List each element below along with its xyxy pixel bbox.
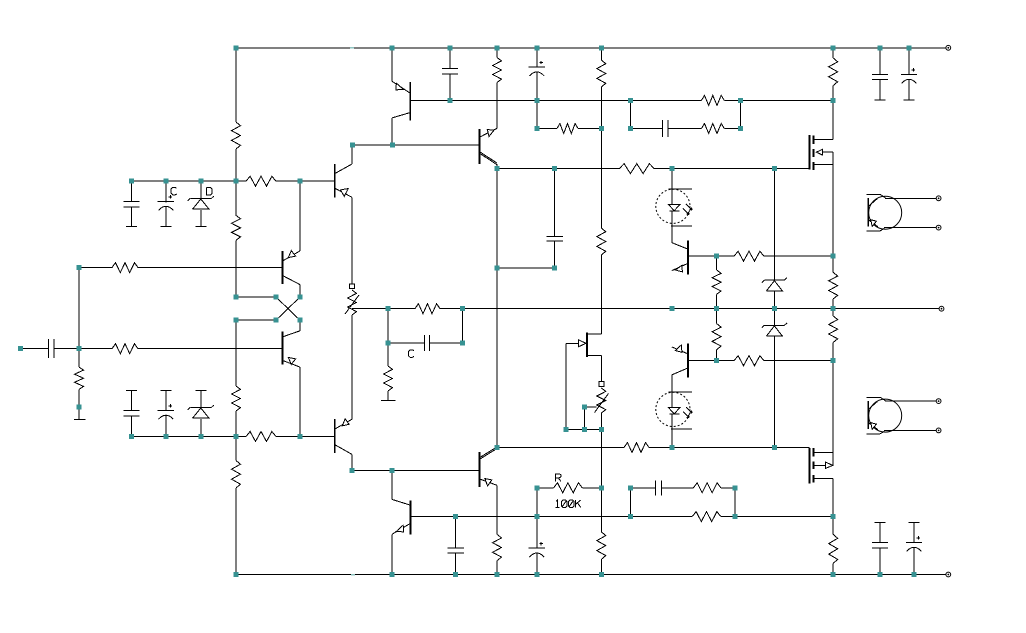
resistor R1 upper bias chain xyxy=(232,122,241,149)
terminal output upper b xyxy=(936,225,941,230)
node junction (165.9,436.5) xyxy=(163,434,168,439)
resistor R11 vas lower load xyxy=(493,534,502,560)
terminal output lower b xyxy=(936,428,941,433)
node junction (300,297) xyxy=(298,295,303,300)
resistor R6 feedback upper xyxy=(112,263,138,273)
node junction (300,436.5) xyxy=(298,434,303,439)
diode D2 rail clamp bottom xyxy=(188,405,214,418)
node junction (450,100.4) xyxy=(448,98,453,103)
transistor Q12 output device upper xyxy=(867,195,937,232)
node junction (630.3,128.5) xyxy=(628,126,633,131)
wire cross-couple bottom xyxy=(236,319,276,321)
node junction (20.6,348.7) xyxy=(18,346,23,351)
capacitor C10 predriver bottom xyxy=(448,548,464,553)
stub C7 xyxy=(126,389,137,391)
node junction (392.5,145.2) xyxy=(390,143,395,148)
capacitor C14 supply bypass top xyxy=(872,74,888,79)
wire x392 segments xyxy=(391,48,393,575)
capacitor C7 rail trio bottom xyxy=(123,410,139,416)
node junction (236,436.5) xyxy=(234,434,239,439)
transistor Q4 vas lower xyxy=(335,315,353,471)
node junction (833.2,256.2) xyxy=(831,254,836,259)
node junction (236,574.5) xyxy=(234,572,239,577)
resistor R28 mosfet drain upper xyxy=(829,58,838,86)
optocoupler LED U2 lower xyxy=(656,375,692,448)
node junction (236,47.8) xyxy=(234,45,239,50)
wire cross diagonal 2 xyxy=(276,297,300,320)
wire y181 line xyxy=(132,180,335,182)
wire x450 cap leads xyxy=(449,48,451,101)
capacitor C3 zobel upper xyxy=(662,120,668,137)
stub C14 xyxy=(875,99,886,101)
terminal V- right xyxy=(946,572,951,577)
resistor R4 lower bias chain xyxy=(232,461,241,489)
node junction (300,181.2) xyxy=(298,179,303,184)
label R xyxy=(555,474,561,482)
wire y360 line xyxy=(688,360,833,362)
resistor R20 zobel upper rung xyxy=(701,124,724,134)
wire pot1 wiper leg xyxy=(352,308,356,310)
node junction (601.3,429.5) xyxy=(599,427,604,432)
zener D3 gate clamp upper xyxy=(762,278,787,291)
ground compensation xyxy=(381,399,396,401)
node junction (833.2,574.5) xyxy=(831,572,836,577)
node junction (909,47.8) xyxy=(907,45,912,50)
wire y436 line xyxy=(132,436,335,438)
node junction (352.3,145.2) xyxy=(350,143,355,148)
node junction (716.6,256.2) xyxy=(714,254,719,259)
stub C15 xyxy=(904,99,915,101)
wire x774 clamp leads xyxy=(773,169,775,448)
resistor R7 input series xyxy=(112,344,138,354)
wire y256 line xyxy=(688,255,833,257)
resistor R27 base lower xyxy=(734,356,764,366)
node junction (833.2,100.4) xyxy=(831,98,836,103)
node junction (554.6,168.6) xyxy=(552,166,557,171)
transistor Q2 input lower xyxy=(283,331,301,367)
ground input xyxy=(74,418,85,420)
capacitor C5 rail trio top xyxy=(123,201,139,206)
transistor Q6 predriver lower xyxy=(392,499,411,534)
node junction (455.7,516.6) xyxy=(453,514,458,519)
node junction (601.3,487.8) xyxy=(599,485,604,490)
label 100K xyxy=(556,500,581,508)
node junction (300,320.2) xyxy=(298,318,303,323)
resistor R30 source lower xyxy=(829,316,838,342)
resistor R9 y436 xyxy=(246,432,276,442)
node junction (566,429.5) xyxy=(564,427,569,432)
node junction (536.8,487.8) xyxy=(534,485,539,490)
terminal output upper a xyxy=(936,196,941,201)
potentiometer P2 bias xyxy=(595,382,609,413)
wire x200 trio leads xyxy=(200,181,202,436)
wire x165 trio leads xyxy=(165,181,167,436)
transistor Q3 vas upper xyxy=(335,145,352,284)
stub C5 xyxy=(126,226,137,228)
node junction (79,267.6) xyxy=(77,265,82,270)
node junction (671.8,447.5) xyxy=(669,445,674,450)
capacitor C11 miller upper xyxy=(546,237,562,242)
stub C16 xyxy=(875,522,886,524)
capacitor C15 supply electrolytic top xyxy=(901,68,917,83)
label C trio xyxy=(171,187,177,195)
wire x497 segments xyxy=(496,48,498,575)
wire negative supply rail V- xyxy=(236,574,946,576)
zener D4 gate clamp lower xyxy=(762,323,787,336)
stub D1 xyxy=(195,226,206,228)
wire positive supply rail V+ xyxy=(236,47,946,49)
node junction (735.2,516.6) xyxy=(733,514,738,519)
transistor Q10 sense lower xyxy=(672,344,717,378)
capacitor C8 rail trio bottom electrolytic xyxy=(158,404,174,419)
node junction (200.8,436.5) xyxy=(198,434,203,439)
capacitor C13 rail filter bottom xyxy=(529,542,545,557)
terminal V+ right xyxy=(946,45,951,50)
wire x131 trio leads xyxy=(131,181,133,436)
resistor R10 vas upper load xyxy=(493,58,502,83)
node junction (716.6,360.7) xyxy=(714,358,719,363)
node junction (131.5,181.2) xyxy=(129,179,134,184)
resistor R2 upper tail xyxy=(232,215,241,240)
node junction (387.8,308.7) xyxy=(385,306,390,311)
node junction (392,470.6) xyxy=(390,468,395,473)
node junction (536.8,574.5) xyxy=(534,572,539,577)
node junction (536.8,128.5) xyxy=(534,126,539,131)
transistor Q13 output device lower xyxy=(867,398,937,435)
resistor R32 comp ground xyxy=(384,366,393,391)
node junction (388,343.1) xyxy=(386,341,391,346)
capacitor C6 rail trio top electrolytic xyxy=(158,195,174,210)
wire x236 chain xyxy=(235,48,237,575)
capacitor C17 supply electrolytic bottom xyxy=(906,536,922,551)
node junction (601.3,128.5) xyxy=(599,126,604,131)
wire x536 bottom segments xyxy=(536,488,538,575)
transistor Q5 predriver upper xyxy=(392,81,450,120)
node junction (671.8,168.6) xyxy=(669,166,674,171)
node junction (774.4,447.5) xyxy=(772,445,777,450)
capacitor C4 zobel lower xyxy=(656,480,662,495)
wire x388 comp branch xyxy=(387,309,389,401)
wire y447 gate line lower xyxy=(497,447,810,449)
transistor Q9 sense upper xyxy=(672,240,717,274)
wire y470 line xyxy=(352,470,480,472)
wire rung verticals lower RC xyxy=(630,488,735,517)
resistor R21 100K xyxy=(554,483,583,493)
terminal output right xyxy=(939,306,944,311)
stub C8 xyxy=(160,389,171,391)
wire x716 segments xyxy=(716,256,718,361)
node junction (450,47.8) xyxy=(448,45,453,50)
node junction (630.3,516.6) xyxy=(628,514,633,519)
wire x554 comp cap leads xyxy=(554,169,556,269)
wire y348 lower input base line xyxy=(21,348,283,350)
node junction (536.8,516.6) xyxy=(534,514,539,519)
terminal output lower a xyxy=(936,399,941,404)
stub D2 xyxy=(195,389,206,391)
wire y100 line xyxy=(410,99,833,101)
node junction (497,268.1) xyxy=(495,266,500,271)
resistor R19 zobel upper main xyxy=(701,95,724,105)
capacitor C2 compensation xyxy=(425,335,430,351)
node junction (601.3,47.8) xyxy=(599,45,604,50)
wire y128 rung upper RC xyxy=(537,128,741,130)
node junction (774.4,168.6) xyxy=(772,166,777,171)
wire x79 input bias xyxy=(78,268,80,420)
node junction (236,297) xyxy=(234,295,239,300)
resistor R25 sense upper b xyxy=(712,324,721,350)
node junction (276,320.2) xyxy=(274,318,279,323)
node junction (914,574.5) xyxy=(912,572,917,577)
wire x601 long vertical xyxy=(600,48,602,575)
node junction (455.7,574.5) xyxy=(453,572,458,577)
node junction (352,470.6) xyxy=(350,468,355,473)
node junction (276,297) xyxy=(274,295,279,300)
node junction (79,348.7) xyxy=(77,346,82,351)
diode D1 rail clamp top xyxy=(188,196,214,209)
resistor R18 y128 rung xyxy=(557,124,578,134)
node junction (200.8,181.2) xyxy=(198,179,203,184)
wire cross-couple top xyxy=(236,296,276,298)
node junction (735.2,487.8) xyxy=(733,485,738,490)
node junction (740.3,100.4) xyxy=(738,98,743,103)
wire y268 comp line xyxy=(497,267,555,269)
node junction (740.3,128.5) xyxy=(738,126,743,131)
capacitor C16 supply bypass bottom xyxy=(872,543,888,549)
node junction (392,47.8) xyxy=(390,45,395,50)
resistor R16 y168 branch xyxy=(597,228,606,255)
node junction (497,168.6) xyxy=(495,166,500,171)
node junction (833.2,360.7) xyxy=(831,358,836,363)
capacitor C1 input coupling xyxy=(49,339,55,358)
wire bias bottom line xyxy=(566,429,601,431)
resistor R13 gate stopper upper xyxy=(619,164,654,174)
node junction (392,574.5) xyxy=(390,572,395,577)
node junction (497,447.5) xyxy=(495,445,500,450)
wire y145 line xyxy=(352,144,479,146)
wire x536 top cap leads xyxy=(536,48,538,129)
node junction (497,574.5) xyxy=(495,572,500,577)
node junction (165.9,181.2) xyxy=(163,179,168,184)
resistor R24 sense upper a xyxy=(712,270,721,294)
transistor Q1 input upper xyxy=(283,251,301,285)
wire x914 bottom cap leads xyxy=(913,523,915,575)
wire cross diagonal 1 xyxy=(276,297,300,320)
wire y487 rung lower RC xyxy=(537,487,735,489)
node junction (774.4,308.7) xyxy=(772,306,777,311)
resistor R14 gate stopper lower xyxy=(624,443,649,453)
wire x880 top cap leads xyxy=(879,48,881,100)
resistor R22 zobel lower rung xyxy=(693,483,720,493)
resistor R5 input ground xyxy=(75,367,84,390)
optocoupler LED U1 upper xyxy=(656,169,692,243)
wire y516 line xyxy=(411,516,834,518)
capacitor C9 predriver top xyxy=(442,68,458,74)
node junction (554.6,268.1) xyxy=(552,266,557,271)
node faint top rail xyxy=(350,47,354,49)
node junction (236,320.2) xyxy=(234,318,239,323)
jfet Q11 bias spreader xyxy=(566,332,601,357)
node junction (584.4,429.5) xyxy=(582,427,587,432)
node junction (584.4,407) xyxy=(582,405,587,410)
potentiometer P1 offset xyxy=(345,284,359,315)
node junction (630.3,100.4) xyxy=(628,98,633,103)
wire x880 bottom cap leads xyxy=(879,523,881,575)
wire x455 cap leads xyxy=(455,517,457,575)
resistor R29 source upper xyxy=(829,272,838,299)
node junction (833.2,516.6) xyxy=(831,514,836,519)
node junction (833.2,47.8) xyxy=(831,45,836,50)
wire x462 comp branch xyxy=(461,309,463,343)
resistor R12 output mid xyxy=(415,304,440,314)
wire x909 top cap leads xyxy=(908,48,910,100)
node junction (833.2,308.7) xyxy=(831,306,836,311)
resistor R26 base upper xyxy=(734,251,764,261)
transistor Q8 driver lower xyxy=(480,447,498,487)
wire bias gate vertical xyxy=(565,343,567,429)
resistor R17 rail lower xyxy=(597,532,606,560)
capacitor C12 rail filter top xyxy=(529,61,545,76)
resistor R31 mosfet lower rail xyxy=(829,534,838,563)
node junction (131.5,436.5) xyxy=(129,434,134,439)
resistor R15 rail upper xyxy=(597,60,606,87)
node junction (497,47.8) xyxy=(495,45,500,50)
wire pot2 wiper leg xyxy=(584,407,596,430)
node junction (716.6,308.7) xyxy=(714,306,719,311)
wire x833 segments xyxy=(832,48,834,575)
mosfet M1 output upper xyxy=(810,135,834,170)
node junction (880,574.5) xyxy=(878,572,883,577)
resistor R23 zobel lower main xyxy=(692,512,721,522)
label D trio xyxy=(207,187,213,195)
node junction (601.3,574.5) xyxy=(599,572,604,577)
resistor R8 y181 xyxy=(246,176,276,186)
wire y267 upper input base line xyxy=(79,267,283,269)
stub C17 xyxy=(909,522,920,524)
wire y168 gate line upper xyxy=(497,168,810,170)
stub C6 xyxy=(160,226,171,228)
node junction (462.3,343.1) xyxy=(460,341,465,346)
node faint bottom rail xyxy=(351,574,355,576)
node junction (880,47.8) xyxy=(878,45,883,50)
wire rung verticals upper RC xyxy=(630,100,740,128)
node junction (79,407) xyxy=(77,405,82,410)
node junction (536.8,100.4) xyxy=(534,98,539,103)
label C compensation xyxy=(409,350,415,358)
node junction (236,181.2) xyxy=(234,179,239,184)
wire x300 segments xyxy=(299,181,301,436)
wire output rail xyxy=(356,308,939,310)
node junction (462.3,308.7) xyxy=(460,306,465,311)
node junction (630.3,487.8) xyxy=(628,485,633,490)
mosfet M2 output lower xyxy=(810,448,834,484)
resistor R3 lower tail xyxy=(232,386,241,411)
node junction (671.8,308.7) xyxy=(669,306,674,311)
wire y343 comp line xyxy=(388,342,462,344)
transistor Q7 driver upper xyxy=(480,128,498,168)
node junction (536.8,47.8) xyxy=(534,45,539,50)
